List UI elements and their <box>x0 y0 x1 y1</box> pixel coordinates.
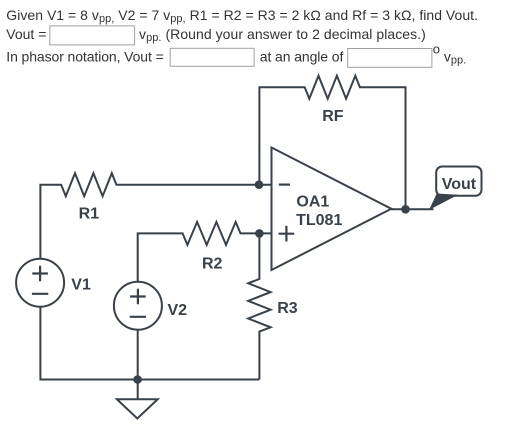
svg-text:R1: R1 <box>79 206 100 223</box>
svg-text:V2: V2 <box>168 302 188 319</box>
svg-text:Vout =: Vout = <box>6 26 46 42</box>
svg-text:TL081: TL081 <box>296 212 342 229</box>
svg-text:RF: RF <box>322 108 344 125</box>
svg-text:Given V1 = 8 vpp, V2 = 7 vpp,: Given V1 = 8 vpp, V2 = 7 vpp, R1 = R2 = … <box>6 7 478 25</box>
svg-text:V1: V1 <box>71 276 91 293</box>
svg-text:R2: R2 <box>202 256 223 273</box>
svg-text:In phasor notation, Vout =: In phasor notation, Vout = <box>6 49 163 65</box>
svg-text:o vpp.: o vpp. <box>433 42 466 67</box>
svg-text:at an angle of: at an angle of <box>260 49 344 65</box>
svg-text:vpp. (Round your answer to 2 d: vpp. (Round your answer to 2 decimal pla… <box>139 26 426 44</box>
svg-text:OA1: OA1 <box>296 194 329 211</box>
svg-text:R3: R3 <box>277 300 298 317</box>
svg-text:Vout: Vout <box>442 176 477 193</box>
